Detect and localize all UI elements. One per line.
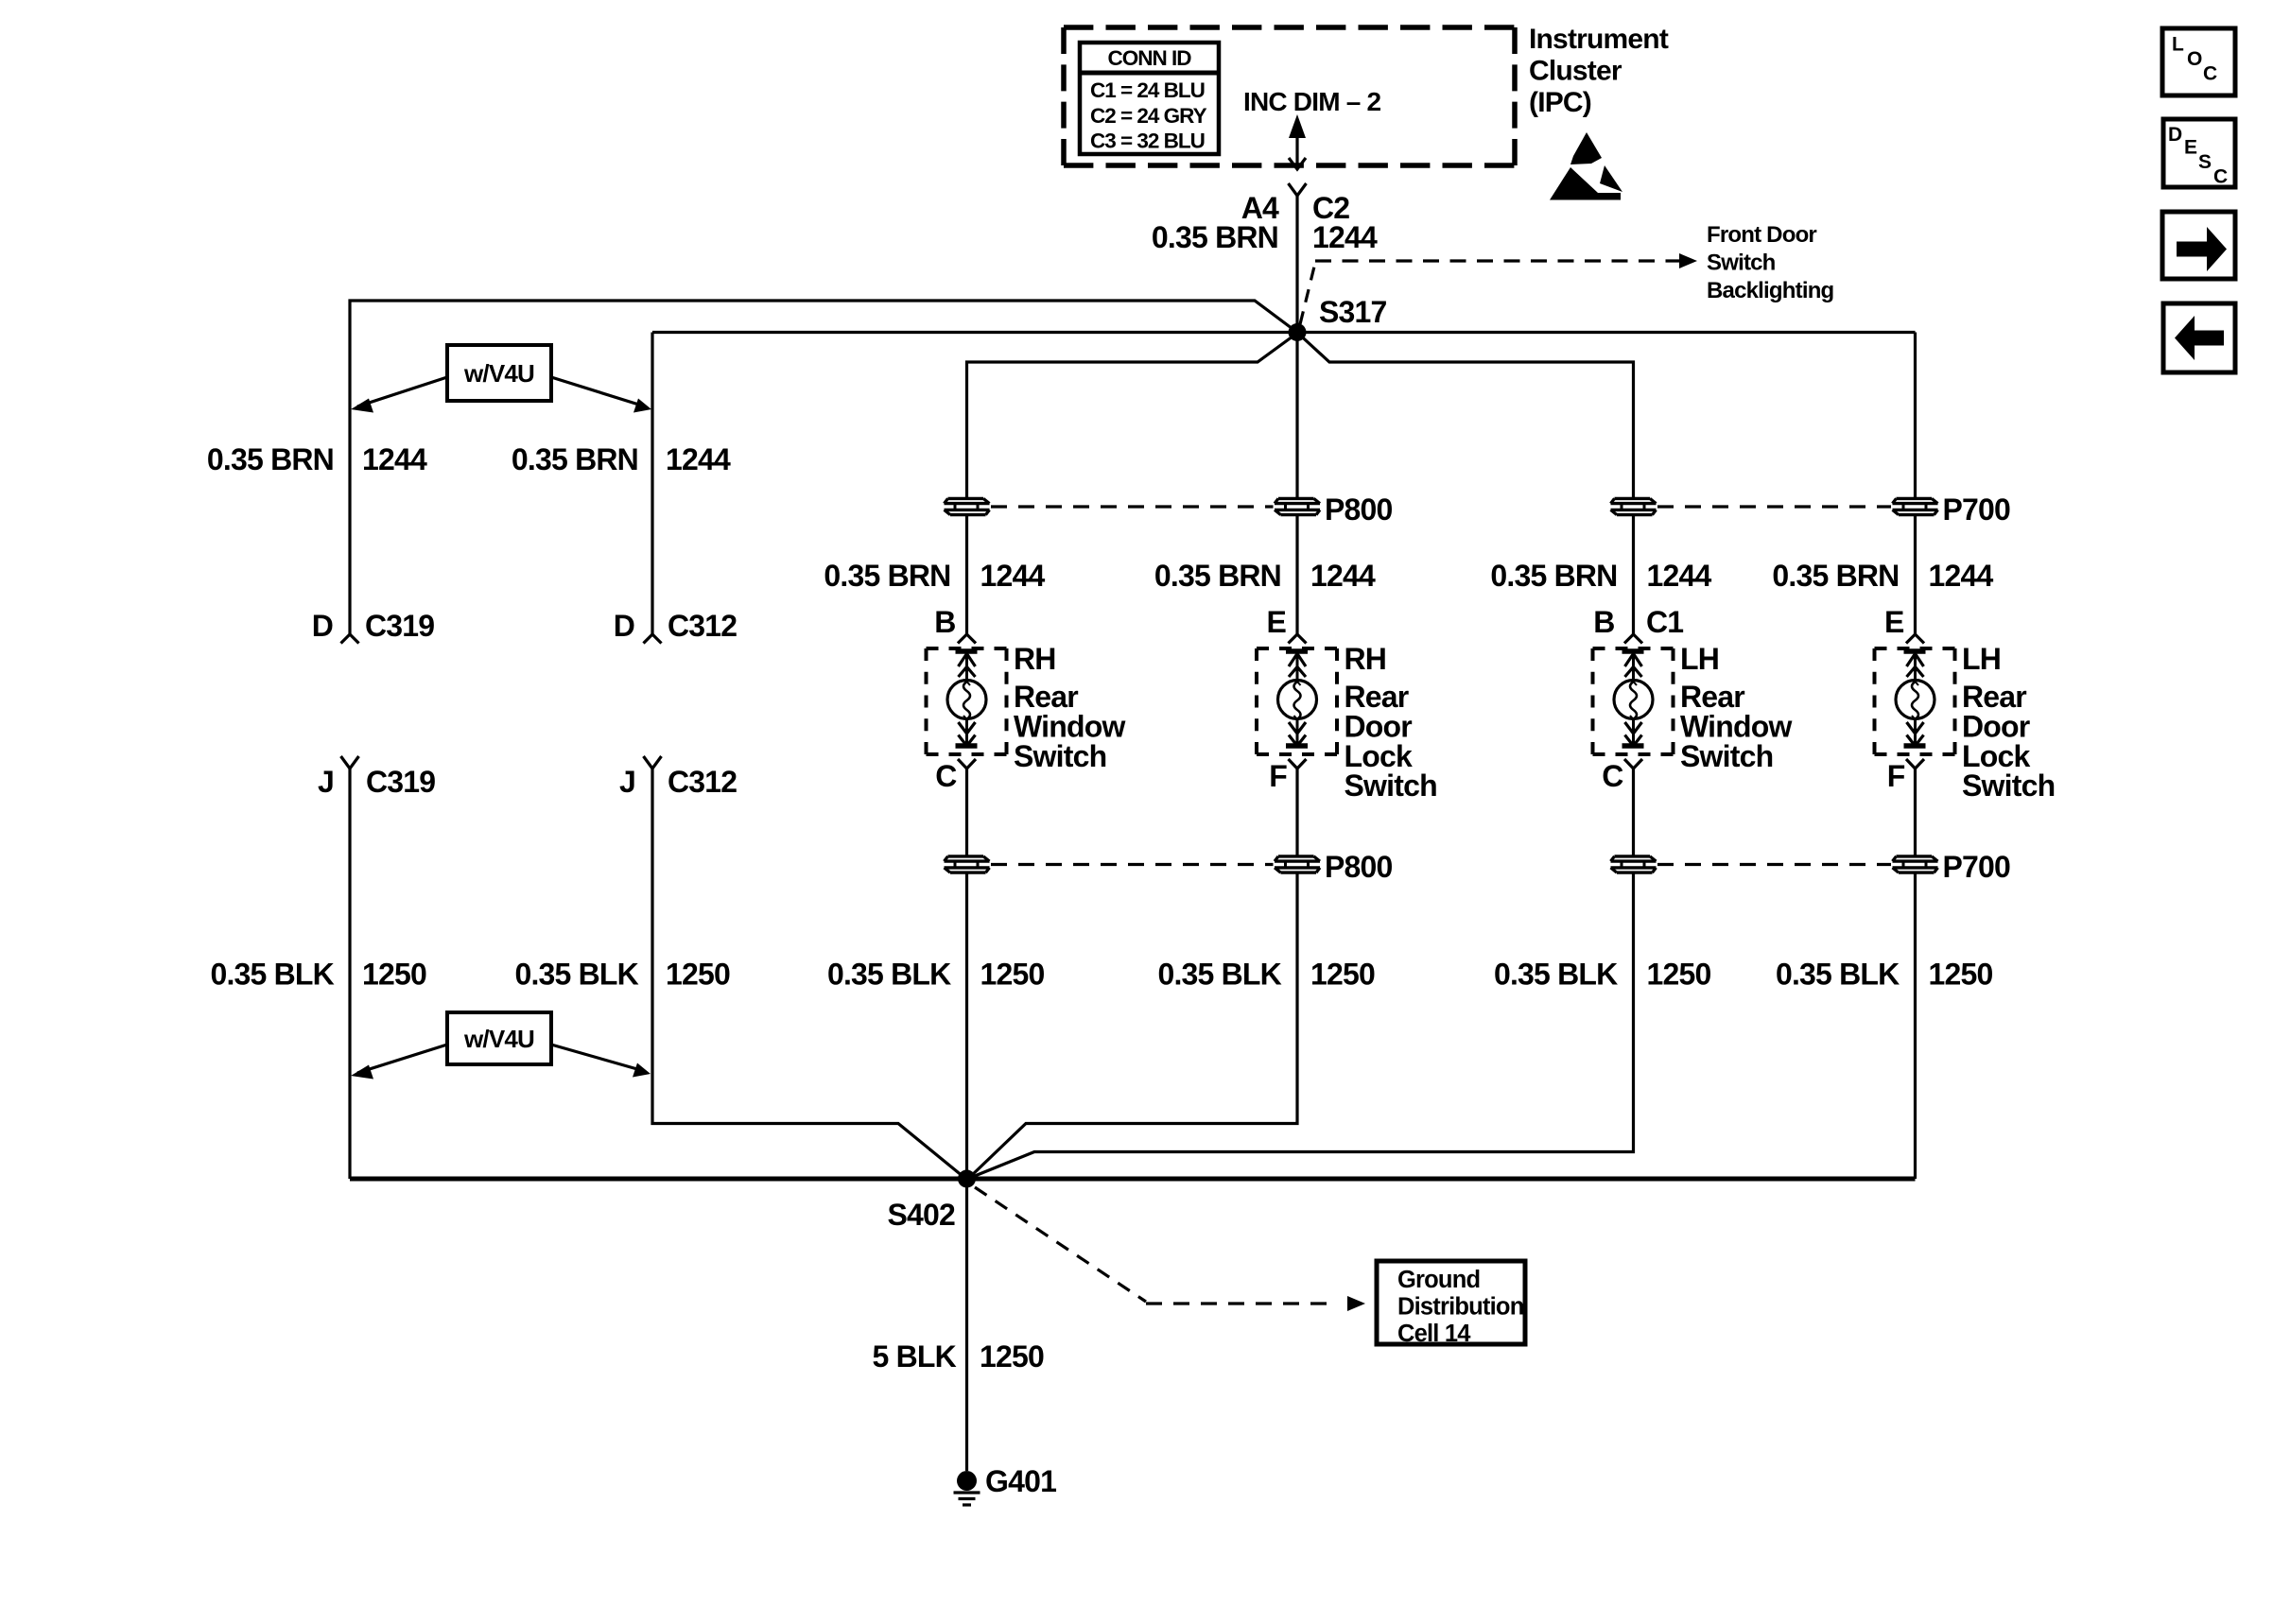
svg-text:E: E xyxy=(1884,605,1904,639)
wire lower-left funnel to col3 xyxy=(967,336,1295,498)
w/V4U upper right arrow xyxy=(551,377,645,406)
svg-text:w/V4U: w/V4U xyxy=(463,359,534,388)
svg-text:S: S xyxy=(2198,151,2212,173)
svg-text:C: C xyxy=(935,759,957,793)
CONN ID table box xyxy=(1080,43,1219,154)
connector C2 pin symbol at IPC wire top xyxy=(1289,183,1307,196)
dashed link P700 row2 xyxy=(1657,863,1891,866)
svg-text:P700: P700 xyxy=(1943,492,2011,527)
svg-text:1244: 1244 xyxy=(362,442,427,476)
svg-text:w/V4U: w/V4U xyxy=(463,1025,534,1053)
svg-text:S317: S317 xyxy=(1319,295,1387,329)
inline connector row2 col3 xyxy=(945,856,990,872)
wire col3 return to S402 xyxy=(965,874,968,1180)
wire col5 mid xyxy=(1632,516,1635,634)
svg-text:1250: 1250 xyxy=(980,1339,1044,1373)
svg-text:0.35 BRN: 0.35 BRN xyxy=(1154,559,1281,593)
svg-text:D: D xyxy=(2168,124,2182,146)
svg-text:C312: C312 xyxy=(668,765,737,799)
wire C312 branch vertical xyxy=(651,333,653,635)
wire top-left branch to C319 xyxy=(350,301,1294,634)
svg-text:0.35 BRN: 0.35 BRN xyxy=(207,442,334,476)
svg-text:LH: LH xyxy=(1680,642,1719,676)
svg-text:0.35 BRN: 0.35 BRN xyxy=(1490,559,1617,593)
svg-text:F: F xyxy=(1887,759,1905,793)
svg-text:C: C xyxy=(2213,166,2228,188)
svg-text:1250: 1250 xyxy=(1310,958,1375,992)
inline connector row1 col5 xyxy=(1611,498,1657,514)
svg-text:1250: 1250 xyxy=(362,958,426,992)
svg-text:S402: S402 xyxy=(887,1198,955,1232)
svg-text:0.35 BLK: 0.35 BLK xyxy=(1776,958,1900,992)
svg-text:C3 = 32 BLU: C3 = 32 BLU xyxy=(1090,130,1205,153)
svg-text:1250: 1250 xyxy=(1929,958,1993,992)
svg-text:F: F xyxy=(1269,759,1287,793)
svg-text:D: D xyxy=(312,609,333,643)
svg-text:Instrument: Instrument xyxy=(1529,24,1669,55)
svg-text:RH: RH xyxy=(1014,642,1056,676)
svg-text:RH: RH xyxy=(1345,642,1387,676)
svg-text:O: O xyxy=(2187,48,2202,70)
svg-text:0.35 BRN: 0.35 BRN xyxy=(512,442,638,476)
svg-text:0.35 BLK: 0.35 BLK xyxy=(1157,958,1281,992)
splice S317 xyxy=(1289,323,1307,341)
forward arrow reference box xyxy=(2162,212,2235,279)
wire col5 return to S402 xyxy=(970,874,1634,1179)
ground bus wire S402 xyxy=(350,1177,1916,1182)
svg-text:1244: 1244 xyxy=(1310,559,1376,593)
back arrow reference box xyxy=(2163,303,2235,372)
svg-text:B: B xyxy=(934,605,955,639)
svg-text:C319: C319 xyxy=(366,765,435,799)
svg-text:Switch: Switch xyxy=(1707,251,1776,276)
svg-text:Switch: Switch xyxy=(1014,739,1106,773)
inline connector row1 col3 xyxy=(945,498,990,514)
connector C319 pin D wire end xyxy=(341,634,359,644)
wire col4 vertical upper xyxy=(1295,333,1298,498)
ground distribution cell 14 box xyxy=(1377,1261,1525,1344)
svg-text:C319: C319 xyxy=(365,609,434,643)
svg-text:P700: P700 xyxy=(1943,850,2011,884)
svg-text:0.35 BRN: 0.35 BRN xyxy=(1152,220,1278,254)
inline connector row1 col4 P800 xyxy=(1275,498,1320,514)
w/V4U lower right arrow xyxy=(551,1045,644,1071)
wire lower-right funnel to col5 xyxy=(1300,336,1634,498)
connector C312 pin D wire end xyxy=(644,634,662,644)
connector C319 pin J wire start xyxy=(341,756,359,769)
svg-text:0.35 BLK: 0.35 BLK xyxy=(210,958,334,992)
instrument cluster IPC dashed box xyxy=(1064,27,1515,165)
inline connector row2 col5 xyxy=(1611,856,1657,872)
svg-text:1244: 1244 xyxy=(980,559,1046,593)
svg-text:Switch: Switch xyxy=(1962,769,2055,803)
svg-text:1244: 1244 xyxy=(1929,559,1994,593)
svg-text:5 BLK: 5 BLK xyxy=(873,1339,957,1373)
svg-text:C1: C1 xyxy=(1646,605,1683,639)
svg-text:0.35 BLK: 0.35 BLK xyxy=(1494,958,1618,992)
svg-text:E: E xyxy=(1266,605,1286,639)
svg-text:Distribution: Distribution xyxy=(1397,1294,1523,1321)
svg-text:1250: 1250 xyxy=(666,958,730,992)
inline connector row1 col6 P700 xyxy=(1893,498,1938,514)
svg-text:B: B xyxy=(1593,605,1614,639)
inline connector row2 col6 P700 xyxy=(1893,856,1938,872)
svg-text:0.35 BLK: 0.35 BLK xyxy=(514,958,638,992)
w/V4U lower left arrow xyxy=(357,1045,447,1073)
svg-text:P800: P800 xyxy=(1325,492,1393,527)
LH rear window switch symbol xyxy=(1593,634,1674,769)
svg-text:(IPC): (IPC) xyxy=(1529,87,1591,118)
svg-text:D: D xyxy=(614,609,634,643)
w/V4U upper left arrow xyxy=(357,377,447,406)
wire col5 lower xyxy=(1632,769,1635,855)
INC DIM-2 arrow xyxy=(1289,114,1306,169)
svg-text:Switch: Switch xyxy=(1345,769,1437,803)
svg-text:Cell 14: Cell 14 xyxy=(1397,1321,1471,1347)
wire col4 lower xyxy=(1295,769,1298,855)
svg-text:LH: LH xyxy=(1962,642,2001,676)
svg-text:E: E xyxy=(2184,137,2197,159)
svg-text:J: J xyxy=(619,765,635,799)
svg-text:0.35 BRN: 0.35 BRN xyxy=(824,559,950,593)
connector C312 pin J wire start xyxy=(644,756,662,769)
svg-text:1244: 1244 xyxy=(666,442,731,476)
CONN ID header separator xyxy=(1080,71,1219,76)
svg-text:Ground: Ground xyxy=(1397,1267,1480,1293)
svg-text:C1 = 24 BLU: C1 = 24 BLU xyxy=(1090,78,1205,102)
svg-text:0.35 BLK: 0.35 BLK xyxy=(827,958,951,992)
dashed link P800 row2 xyxy=(991,863,1274,866)
w/V4U option box lower xyxy=(447,1012,551,1064)
svg-text:J: J xyxy=(318,765,334,799)
svg-text:1244: 1244 xyxy=(1312,220,1378,254)
wire col6 return vertical xyxy=(1914,874,1917,1180)
svg-text:Switch: Switch xyxy=(1680,739,1773,773)
svg-text:0.35 BRN: 0.35 BRN xyxy=(1772,559,1899,593)
RH rear window switch symbol xyxy=(927,634,1007,769)
svg-text:INC DIM – 2: INC DIM – 2 xyxy=(1243,87,1380,116)
ESD sensitive device symbol xyxy=(1550,132,1622,200)
wire mid horizontal through S317 xyxy=(652,331,1916,334)
dashed leader S317 to front door switch backlighting xyxy=(1300,263,1315,324)
wire col6 vertical upper xyxy=(1914,333,1917,498)
ground G401 xyxy=(954,1471,980,1505)
svg-text:Backlighting: Backlighting xyxy=(1707,278,1834,303)
RH rear door lock switch symbol xyxy=(1257,634,1337,769)
svg-text:G401: G401 xyxy=(985,1464,1056,1498)
svg-text:1250: 1250 xyxy=(1647,958,1711,992)
DESC reference box xyxy=(2163,119,2235,187)
svg-text:1244: 1244 xyxy=(1647,559,1712,593)
svg-text:C312: C312 xyxy=(668,609,737,643)
svg-text:C2 = 24 GRY: C2 = 24 GRY xyxy=(1090,104,1207,128)
svg-text:C: C xyxy=(2203,63,2217,85)
wire col3 mid xyxy=(965,516,968,634)
dashed link P700 row1 xyxy=(1657,505,1891,508)
svg-text:Front Door: Front Door xyxy=(1707,222,1816,248)
wire col3 lower xyxy=(965,769,968,855)
svg-text:L: L xyxy=(2172,34,2184,56)
wire C312 lower vertical with return to S402 xyxy=(652,769,963,1177)
wire S402 to G401 xyxy=(965,1179,968,1471)
svg-text:P800: P800 xyxy=(1325,850,1393,884)
LOC reference box xyxy=(2162,28,2235,95)
dashed link P800 row1 xyxy=(991,505,1274,508)
w/V4U option box upper xyxy=(447,345,551,401)
inline connector row2 col4 P800 xyxy=(1275,856,1320,872)
wire col4 mid xyxy=(1295,516,1298,634)
wire A4-C2 from IPC to S317 xyxy=(1295,196,1298,333)
svg-text:Cluster: Cluster xyxy=(1529,56,1622,87)
wire col6 mid xyxy=(1914,516,1917,634)
splice S402 xyxy=(958,1170,976,1188)
dashed leader S402 to ground distribution xyxy=(975,1187,1146,1302)
wire C319 lower vertical xyxy=(348,769,351,1179)
svg-text:1250: 1250 xyxy=(980,958,1045,992)
svg-text:C: C xyxy=(1602,759,1623,793)
svg-text:CONN ID: CONN ID xyxy=(1108,46,1192,70)
LH rear door lock switch symbol xyxy=(1875,634,1955,769)
wire col6 lower xyxy=(1914,769,1917,855)
wire col4 return to S402 xyxy=(970,874,1297,1178)
